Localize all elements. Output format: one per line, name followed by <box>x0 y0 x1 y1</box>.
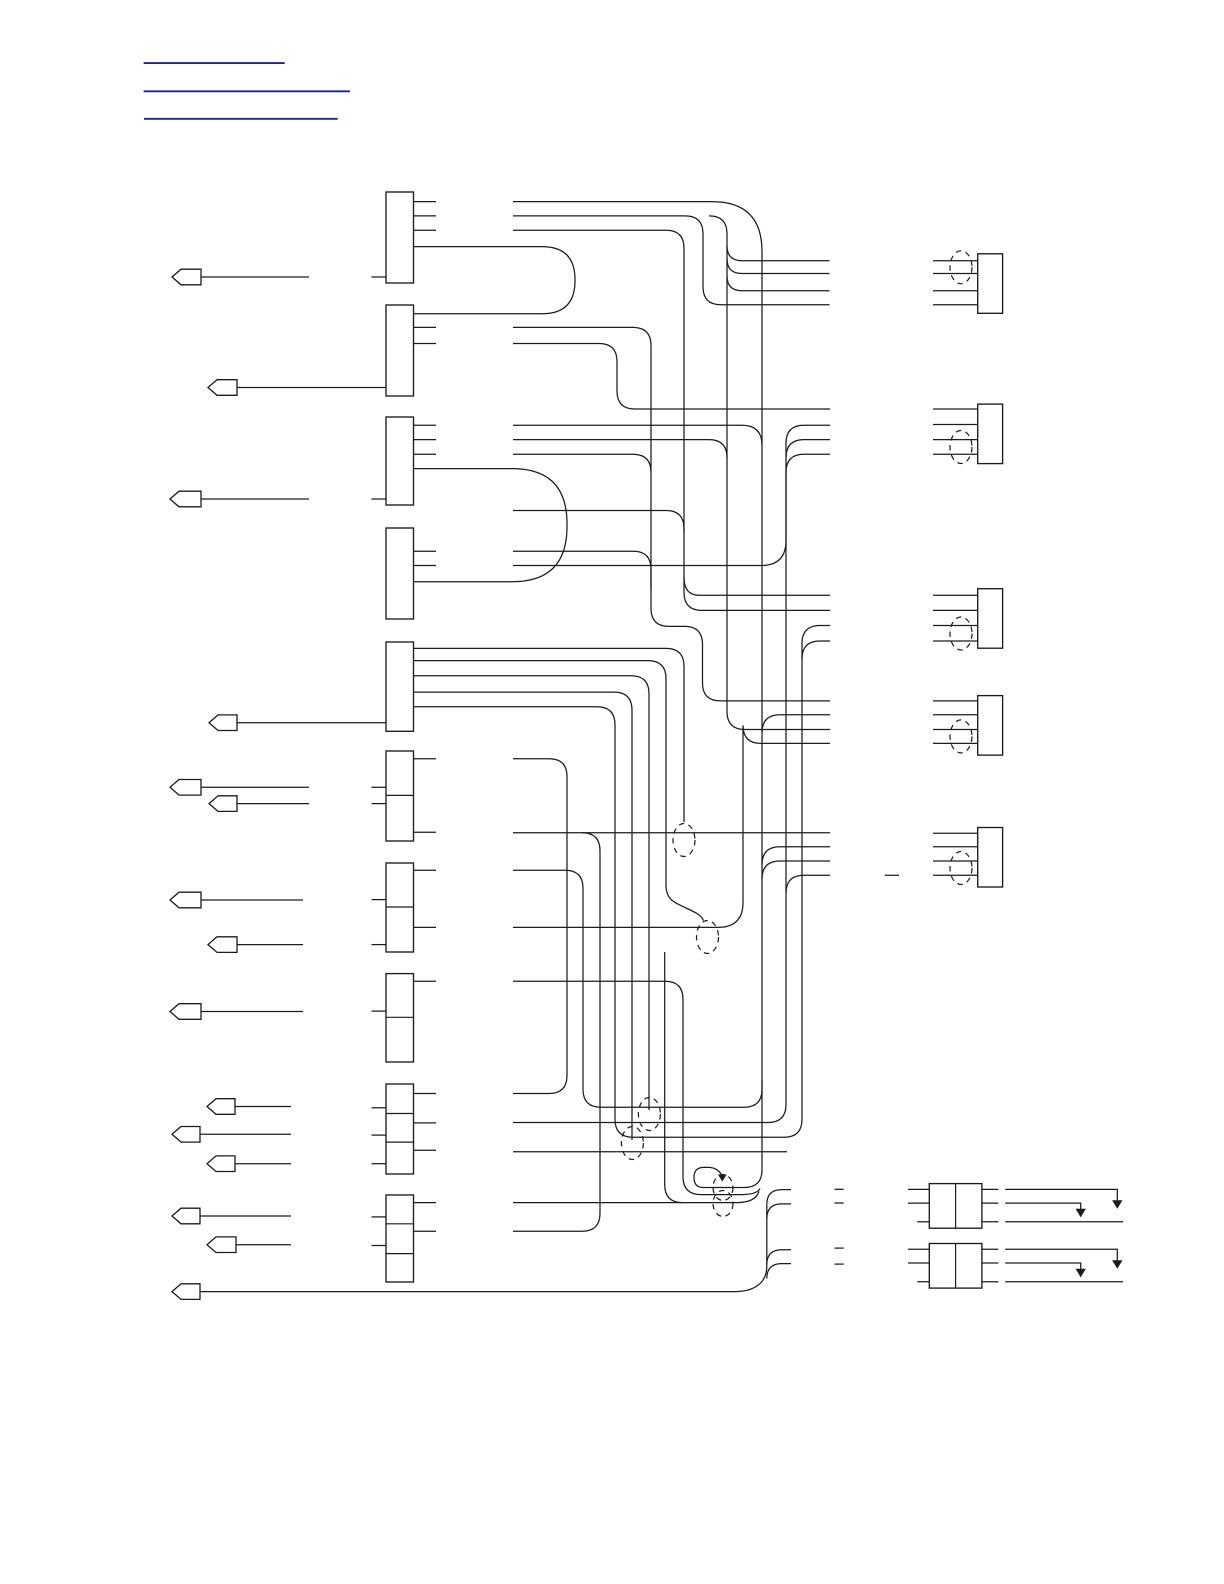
flag E4 <box>209 715 386 731</box>
flag E15 <box>172 1284 200 1300</box>
wire net27 peel CN4p2 <box>762 715 830 733</box>
connector J4 <box>386 528 414 619</box>
flag E11 <box>172 1127 291 1143</box>
wire net3b peel CN3p1 <box>684 577 830 595</box>
wire net14b v665 lower segment <box>665 952 683 1203</box>
flag E7 <box>170 892 303 908</box>
flag E3 <box>170 491 309 507</box>
relay stub 3 <box>835 1247 844 1249</box>
wire net17 C6p1 to C9p1 row <box>513 759 567 1094</box>
relay stub 2 <box>835 1202 844 1204</box>
wire net20 C7p1 long loop <box>513 870 762 1107</box>
twist marker CN4 <box>950 720 972 753</box>
wire net13 C5p1 drop <box>414 648 685 822</box>
connector J10 <box>386 1195 414 1282</box>
wire net2 C1p2 to CN1p4 <box>513 216 830 305</box>
connector CN5 <box>933 828 1003 888</box>
wire net29 bottom bus <box>200 1205 767 1292</box>
wire net2c peel CN1p1 <box>727 246 830 261</box>
flag E6 <box>209 796 309 812</box>
relay K1 <box>908 1184 1123 1229</box>
wire net8b bus786 peel CN2p3 <box>786 440 830 458</box>
wire net29a peel p1 <box>767 1190 791 1205</box>
wire net5 C2p2 to CN4p1 <box>513 327 830 701</box>
relay K2 <box>908 1244 1123 1289</box>
wire net7b bus786 peel CN2p2 <box>786 425 830 474</box>
wire net28 C10p1 row <box>513 1192 759 1203</box>
wire net2b v727 bus <box>709 216 830 730</box>
wire net24 C9p2 up bus786 <box>513 473 786 1123</box>
flag E10 <box>207 1099 291 1115</box>
wire net29d peel p4 <box>767 1264 791 1279</box>
connector right pin stubs <box>414 202 437 1232</box>
wire net19b branch to C10 row <box>513 833 600 1231</box>
wire net25 C9p3 row <box>513 1151 787 1153</box>
wire net9 C3p3 row dive <box>513 454 651 472</box>
wire net21 C7p2 up to CN4p4 <box>513 725 830 927</box>
twist marker M6 <box>713 1191 733 1217</box>
flag E14 <box>207 1237 291 1253</box>
connector left pin ticks <box>372 277 387 1246</box>
twist marker M3 <box>638 1098 660 1131</box>
wire net7 C3p1 row dive <box>513 425 762 445</box>
wire net16b peel CN3p4 <box>802 641 830 659</box>
wire net22 C8p1 descender <box>513 981 760 1194</box>
flag E2 <box>208 380 386 396</box>
wire net16 C5p5 long loop <box>414 626 831 1138</box>
connector CN3 <box>933 589 1003 649</box>
wire net15 C5p3 drop <box>414 676 650 1110</box>
wire net1 C1p1 to bottom arrow <box>513 202 762 1188</box>
relay stub 4 <box>835 1263 844 1265</box>
connector CN1 <box>933 254 1003 313</box>
stub near CN5p4 <box>885 874 899 876</box>
connector J1 <box>386 192 414 283</box>
wire net11 C4p1 drop <box>513 551 651 590</box>
hyperlink underline 3 <box>144 118 338 120</box>
connector J7 <box>386 863 414 952</box>
connector J8 <box>386 974 414 1062</box>
wire net12b peel CN5p2 <box>762 847 830 865</box>
connector J9 <box>386 1084 414 1174</box>
connector CN2 <box>933 404 1003 464</box>
twist marker M2 <box>697 921 719 954</box>
wire net24b peel CN5p3 <box>762 861 830 879</box>
wire net19 C6p2 to CN5p1 <box>513 832 830 834</box>
wire net12 C4p2 up bus786 <box>513 473 786 566</box>
twist marker CN1 <box>950 251 972 284</box>
flag E9 <box>170 1004 303 1020</box>
wire net15b C5p4 drop <box>414 692 633 1140</box>
wire net2e peel CN1p3 <box>727 276 830 291</box>
connector CN4 <box>933 696 1003 756</box>
wire net3 C1p3 to CN3p2 <box>513 230 830 610</box>
twist marker M5 <box>713 1175 733 1201</box>
wire net29b peel p2 <box>767 1204 791 1219</box>
twist marker M4 <box>621 1127 643 1160</box>
connector J2 <box>386 305 414 396</box>
wire net24c peel CN5p4 <box>786 875 830 893</box>
wire net10 C3-C4 U loop <box>414 469 568 582</box>
twist marker CN3 <box>950 617 972 650</box>
hyperlink underline 1 <box>144 62 285 64</box>
wire net6 C2p3 to CN2p1 <box>513 344 830 410</box>
wire net2d peel CN1p2 <box>727 259 830 274</box>
twist marker CN5 <box>950 852 972 885</box>
relay stub 1 <box>835 1188 844 1190</box>
wire net4 C1-C2 U loop <box>414 247 576 314</box>
flag E12 <box>207 1156 291 1172</box>
flag E1 <box>172 269 309 285</box>
wire net8 C3p2 row dive <box>513 440 727 458</box>
connector J5 <box>386 642 414 731</box>
wire net29c peel p3 <box>767 1250 791 1265</box>
twist marker CN2 <box>950 431 972 464</box>
wire net31 row510 merge <box>513 511 684 533</box>
twist marker M1 <box>673 824 695 857</box>
wire net14 C5p2 drop S-dive <box>414 661 704 921</box>
flag E13 <box>172 1208 291 1224</box>
flag E8 <box>208 937 303 953</box>
connector J3 <box>386 417 414 505</box>
wire net9b bus786 peel CN2p4 <box>786 454 830 472</box>
hyperlink underline 2 <box>144 90 350 92</box>
flag E5 <box>170 780 309 796</box>
connector J6 <box>386 751 414 841</box>
